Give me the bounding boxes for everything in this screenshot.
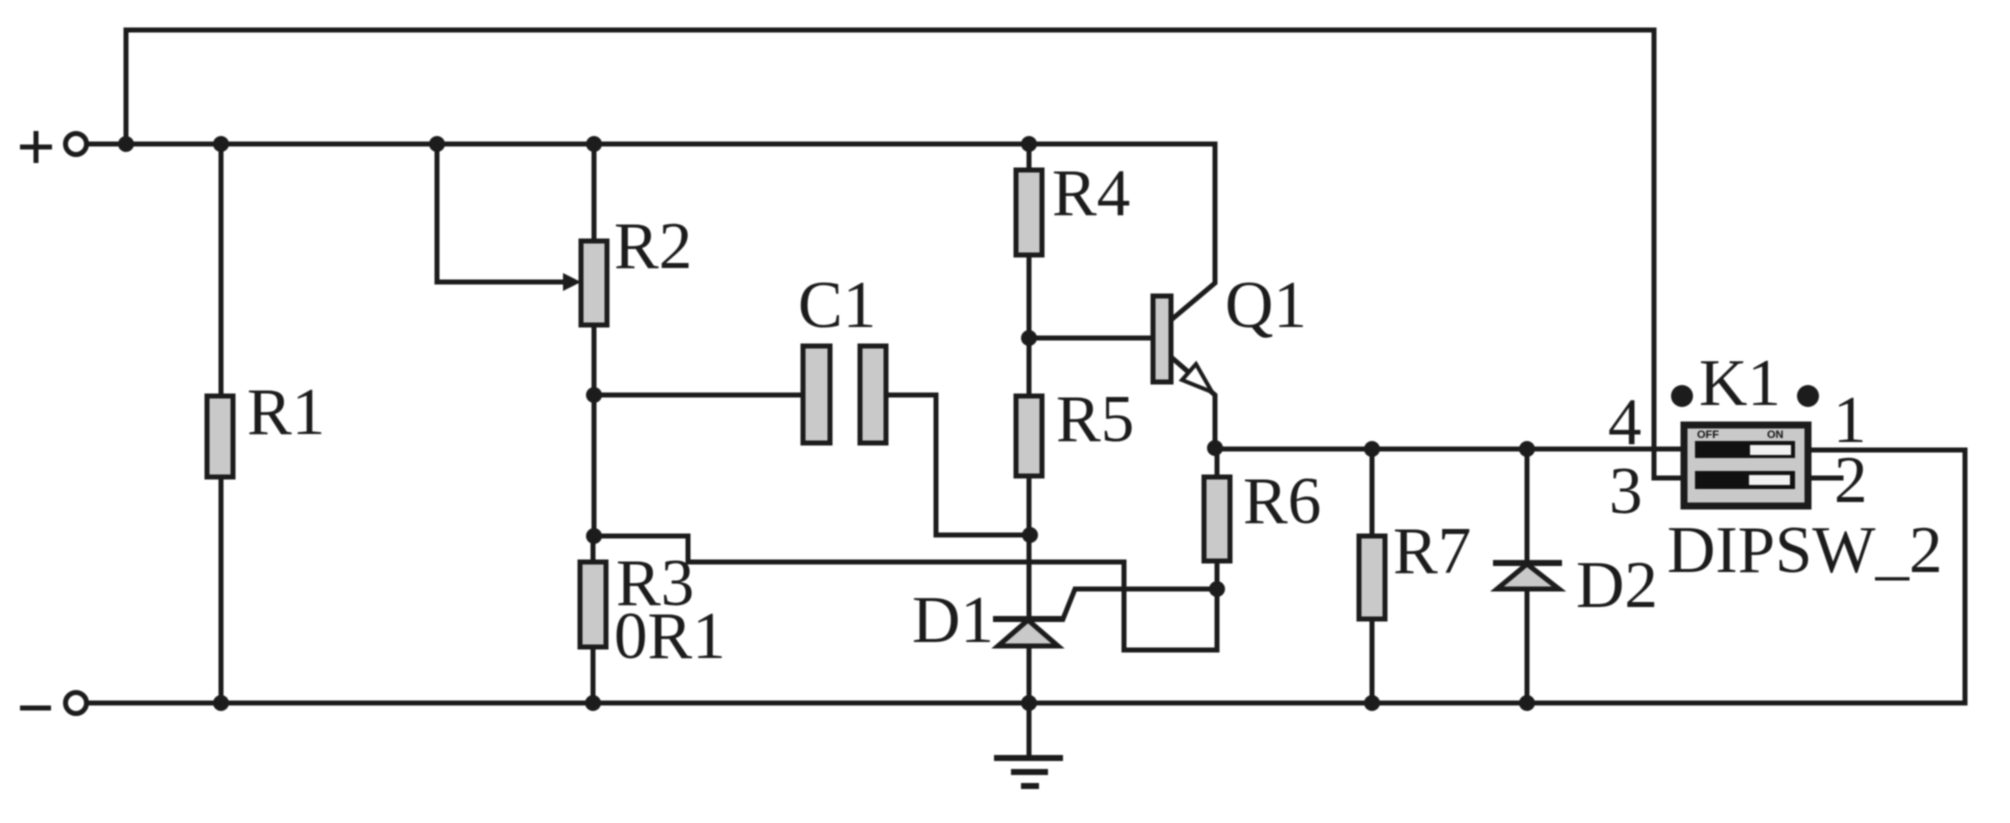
resistor R5 xyxy=(1016,396,1042,476)
diode D2 xyxy=(1493,563,1562,589)
wire R6 to D1 xyxy=(1063,589,1217,619)
transistor Q1 xyxy=(1153,296,1212,392)
wire R3 loop xyxy=(594,536,1217,650)
node R2 top xyxy=(586,136,602,152)
resistor R7 xyxy=(1359,536,1385,619)
wire R7 branch xyxy=(1370,449,1375,703)
node R2 bottom xyxy=(586,387,602,403)
node R3 bottom xyxy=(585,695,601,711)
wire D2 branch xyxy=(1525,449,1530,703)
resistor R2 (pot) xyxy=(581,241,607,325)
node R7 top xyxy=(1364,441,1380,457)
wire bottom rail xyxy=(89,701,1965,706)
svg-text:R7: R7 xyxy=(1393,514,1471,588)
svg-text:Q1: Q1 xyxy=(1225,268,1307,342)
capacitor C1 xyxy=(803,346,886,443)
svg-text:R6: R6 xyxy=(1243,464,1321,538)
svg-text:R5: R5 xyxy=(1056,382,1134,456)
svg-text:R2: R2 xyxy=(614,209,692,283)
svg-text:2: 2 xyxy=(1834,443,1868,517)
wire C1 right xyxy=(886,395,1030,535)
svg-text:ON: ON xyxy=(1767,429,1784,441)
wire Q1 base xyxy=(1029,336,1153,341)
diode D1 xyxy=(993,619,1063,646)
node D2 top xyxy=(1519,441,1535,457)
node R7 bottom xyxy=(1364,695,1380,711)
wire R2 branch xyxy=(592,144,597,536)
node R4 top xyxy=(1021,136,1037,152)
wire dip pin3 xyxy=(1654,476,1681,481)
wire C1 left xyxy=(594,393,803,398)
resistor R3 xyxy=(580,562,606,647)
wire dip pin1 xyxy=(1811,450,1965,703)
resistor R4 xyxy=(1016,170,1042,255)
svg-text:3: 3 xyxy=(1609,454,1643,528)
svg-text:R1: R1 xyxy=(247,375,325,449)
svg-text:DIPSW_2: DIPSW_2 xyxy=(1667,513,1942,587)
svg-text:0R1: 0R1 xyxy=(614,599,726,673)
wire R3 branch xyxy=(591,536,596,703)
dip switch K1 xyxy=(1671,385,1819,506)
svg-text:K1: K1 xyxy=(1699,346,1781,420)
svg-text:R4: R4 xyxy=(1052,156,1130,230)
wire top rail xyxy=(126,30,1654,478)
node R1 bottom xyxy=(213,695,229,711)
wire D1 bottom xyxy=(1027,646,1032,703)
ground xyxy=(994,758,1063,786)
svg-text:D1: D1 xyxy=(912,583,994,657)
wire dip pin2 stub xyxy=(1813,476,1841,481)
wire plus rail xyxy=(89,142,1215,147)
node Q1 base xyxy=(1021,330,1037,346)
wire ground stem xyxy=(1027,703,1032,758)
node R1 top xyxy=(213,136,229,152)
wire R1 branch xyxy=(219,144,224,703)
R2 wiper arrow xyxy=(563,273,581,291)
svg-text:OFF: OFF xyxy=(1697,429,1719,441)
node R6 bottom xyxy=(1209,581,1225,597)
node wiper top xyxy=(429,136,445,152)
wire Q1 emitter xyxy=(1171,357,1215,448)
terminal plus xyxy=(20,131,87,163)
wire Q1 collector xyxy=(1171,144,1215,320)
wire emitter rail xyxy=(1215,447,1681,452)
node emitter xyxy=(1207,440,1223,456)
terminal minus xyxy=(20,693,87,714)
svg-text:4: 4 xyxy=(1608,385,1642,459)
wire R6 branch xyxy=(1215,448,1220,589)
svg-text:C1: C1 xyxy=(798,268,876,342)
node D1 bottom xyxy=(1021,695,1037,711)
svg-text:D2: D2 xyxy=(1576,548,1658,622)
node D2 bottom xyxy=(1519,695,1535,711)
resistor R6 xyxy=(1204,477,1230,561)
node R3 top xyxy=(586,528,602,544)
node plus-top xyxy=(118,136,134,152)
node R5 bottom xyxy=(1022,527,1038,543)
wire R4-R5-D1 branch xyxy=(1027,144,1032,619)
wire R2 wiper xyxy=(437,144,564,282)
resistor R1 xyxy=(207,396,233,477)
